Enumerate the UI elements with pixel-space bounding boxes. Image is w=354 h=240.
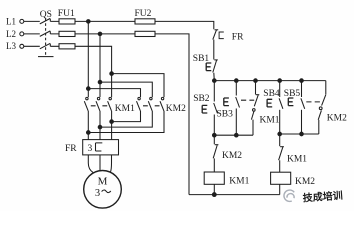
svg-text:SB5: SB5 [284, 89, 301, 99]
wire SB1 to rail [213, 73, 216, 81]
node row right [280, 133, 319, 135]
button SB3 NO (control col2) [217, 81, 255, 136]
node L1 terminal [6, 16, 24, 26]
wire branch to KM2 pole1 [88, 89, 140, 98]
wire FU2 L1 to FR column [155, 21, 214, 29]
contactor KM1 main pole 3 [108, 74, 112, 140]
wire QS to FU1 [50, 21, 59, 46]
wire L3 row after FU1 [75, 46, 112, 73]
svg-text:3: 3 [95, 188, 100, 199]
wire L2 row after FU1 [75, 33, 135, 35]
wire branch to KM2 pole2 [100, 82, 152, 97]
wire phase2 to FR [99, 127, 101, 140]
wire L1 row after FU1 [75, 20, 135, 22]
svg-text:SB3: SB3 [217, 110, 234, 120]
wire L1 to QS [24, 20, 40, 22]
svg-text:3: 3 [88, 144, 93, 154]
svg-text:L2: L2 [6, 29, 16, 39]
junction dot phase3 branch [110, 72, 114, 76]
junction dot phase1 branch [87, 87, 91, 91]
contactor KM2 main pole 2 [100, 97, 152, 127]
relay contact FR (control) [213, 30, 244, 43]
svg-text:FU2: FU2 [135, 9, 152, 19]
fuse FU1 [58, 9, 75, 49]
interlock contact KM1 (NC) [279, 134, 308, 172]
KM2 poles linkage dashes [143, 105, 160, 107]
junction dot phase2 branch [98, 80, 102, 84]
button SB5 (NO) [284, 81, 320, 134]
contactor KM2 main pole 3 [88, 97, 164, 132]
junction dot L1 [87, 20, 91, 24]
svg-text:SB2: SB2 [193, 94, 210, 104]
svg-text:FR: FR [232, 33, 244, 43]
contact KM2 aux (latching) [318, 81, 347, 134]
wire phase2 down [99, 34, 101, 82]
svg-text:KM2: KM2 [327, 114, 347, 124]
coil KM1 [204, 172, 249, 195]
contact SB3-NC + KM1 aux (col3) [251, 81, 279, 136]
wire FR to motor left [88, 155, 93, 173]
contactor KM1 main pole 2 [96, 82, 100, 127]
svg-text:KM1: KM1 [260, 116, 280, 126]
svg-text:KM1: KM1 [287, 155, 307, 165]
svg-text:FR: FR [65, 144, 77, 154]
interlock contact KM2 (NC) [213, 135, 242, 172]
wire FU2 L2 down-left control rail [155, 34, 189, 195]
svg-text:FU1: FU1 [58, 9, 75, 19]
button SB2 (NO start) [193, 81, 217, 136]
button SB1 (NC stop) [193, 54, 218, 73]
junction dot L2 [98, 32, 102, 36]
control top rail [214, 80, 325, 82]
junction dots on top rail [213, 79, 217, 83]
motor M [84, 171, 122, 209]
wire phase1 to FR [87, 133, 89, 140]
node row left [214, 134, 253, 136]
contactor KM2 main pole 1 [112, 97, 141, 121]
svg-text:技成培训: 技成培训 [302, 189, 343, 205]
svg-text:L1: L1 [6, 16, 16, 26]
wire FR to motor right [110, 155, 111, 172]
wire FR to motor middle [99, 155, 101, 171]
node L3 terminal [6, 41, 24, 51]
svg-text:L3: L3 [6, 41, 16, 51]
KM1 poles linkage dashes [91, 105, 107, 107]
thermal relay FR box [65, 140, 119, 155]
svg-text:KM2: KM2 [222, 151, 242, 161]
contactor KM1 main pole 1 [84, 89, 88, 133]
switch QS [38, 10, 54, 57]
junction dot return pole1 [110, 120, 114, 124]
junction dot return pole3 [87, 131, 91, 135]
svg-text:M: M [98, 176, 108, 188]
svg-text:KM2: KM2 [166, 104, 186, 114]
svg-text:KM1: KM1 [229, 177, 249, 187]
control bottom rail [189, 194, 280, 196]
wire L3 to QS [24, 45, 40, 47]
svg-text:SB4: SB4 [263, 89, 280, 99]
svg-text:KM1: KM1 [115, 104, 135, 114]
svg-text:KM2: KM2 [295, 177, 315, 187]
wire L2 to QS [24, 33, 40, 35]
wire FR to SB1 [213, 40, 215, 60]
coil KM2 [271, 172, 316, 194]
wire branch to KM2 pole3 [112, 74, 164, 98]
fuse FU2 [135, 9, 156, 37]
wire phase1 down [87, 21, 89, 88]
node L2 terminal [6, 29, 24, 39]
junction dot return pole2 [98, 125, 102, 129]
button SB4 (NO) [263, 81, 283, 134]
watermark logo [284, 190, 294, 201]
